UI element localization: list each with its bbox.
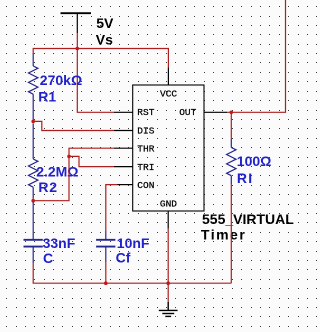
dc power source Vs bar [61, 13, 92, 33]
pin stub DIS [114, 130, 133, 132]
svg-text:RST: RST [137, 107, 154, 118]
svg-text:TRI: TRI [137, 162, 154, 173]
svg-text:555_VIRTUAL: 555_VIRTUAL [202, 211, 294, 227]
wire RI to ground rail [230, 184, 232, 283]
wire top rail 5V [33, 49, 168, 68]
svg-text:2.2MΩ: 2.2MΩ [36, 164, 78, 180]
svg-text:Vs: Vs [96, 31, 113, 47]
node DIS junction [31, 120, 35, 124]
capacitor Cf 10nF [96, 231, 115, 262]
wire CON to Cf [106, 185, 118, 231]
svg-text:270kΩ: 270kΩ [40, 72, 82, 88]
wire DIS node to pin [33, 120, 114, 131]
wire Vs lead to top rail [76, 33, 78, 49]
svg-text:33nF: 33nF [43, 235, 76, 251]
pin stub OUT [204, 111, 227, 113]
svg-text:C: C [43, 250, 53, 266]
pin stub CON [118, 184, 133, 186]
wire OUT to RI [230, 112, 232, 139]
wire C to ground rail [33, 263, 231, 283]
svg-text:OUT: OUT [179, 107, 196, 118]
svg-text:RI: RI [237, 170, 253, 186]
svg-text:GND: GND [160, 199, 177, 210]
pin stub THR [114, 147, 133, 149]
junction TRI branch [67, 155, 71, 159]
wire RST from 5V rail [77, 49, 114, 113]
capacitor C 33nF [24, 202, 43, 263]
wire Cf to ground rail [105, 262, 107, 283]
svg-text:5V: 5V [96, 15, 114, 31]
555 timer U1 box [133, 85, 204, 211]
junction gnd stub [166, 281, 170, 285]
ground symbol [159, 302, 178, 316]
junction R2 bottom [31, 199, 35, 203]
wire TRI branch [69, 156, 114, 166]
svg-text:THR: THR [137, 143, 154, 154]
svg-text:10nF: 10nF [117, 235, 150, 251]
resistor RI 100 [227, 139, 236, 184]
svg-text:VCC: VCC [160, 88, 177, 99]
resistor R2 2.2M [29, 124, 38, 199]
resistor R1 270k [29, 53, 38, 120]
svg-text:DIS: DIS [137, 126, 154, 137]
svg-text:R1: R1 [38, 89, 56, 105]
wire OUT node [227, 0, 286, 112]
pin stub GND [167, 211, 169, 229]
svg-text:Timer: Timer [201, 227, 246, 243]
wire THR/TRI node [33, 148, 114, 201]
svg-text:100Ω: 100Ω [237, 153, 272, 169]
svg-text:Cf: Cf [116, 250, 131, 266]
wire GND pin to ground [167, 229, 169, 302]
pin stub RST [114, 111, 133, 113]
pin stub TRI [114, 166, 133, 168]
svg-text:CON: CON [137, 180, 154, 191]
junction Cf ground [104, 281, 108, 285]
wire VCC pin stub [167, 67, 169, 85]
junction OUT [230, 111, 234, 115]
junction at Vs tap [76, 47, 80, 51]
svg-text:R2: R2 [38, 179, 58, 195]
